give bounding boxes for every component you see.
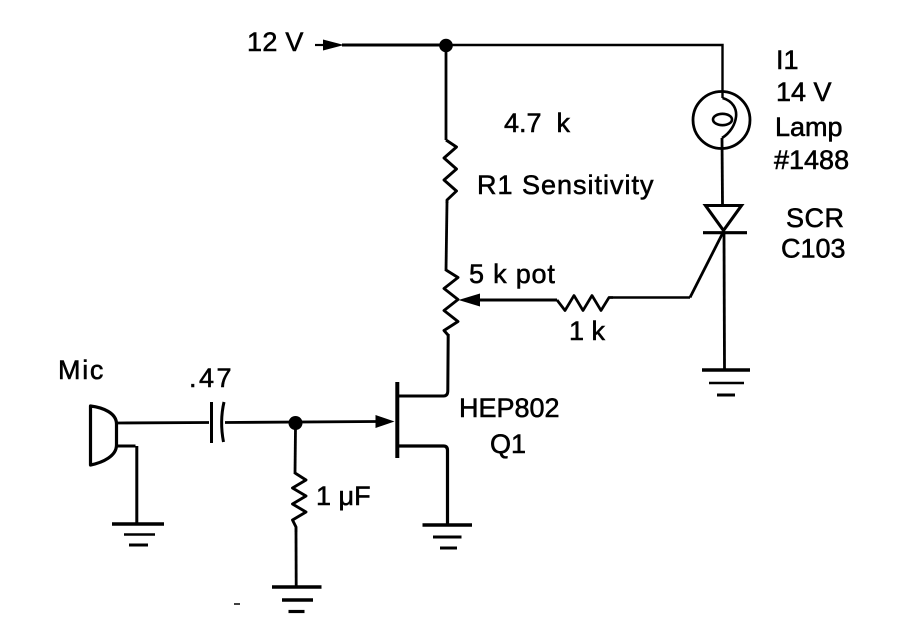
- svg-text:I1: I1: [776, 45, 799, 75]
- node junction at 1uF: [289, 416, 303, 430]
- svg-text:C103: C103: [781, 234, 846, 264]
- potentiometer 5k zigzag: [444, 270, 458, 335]
- svg-text:Q1: Q1: [490, 429, 526, 459]
- svg-text:1 k: 1 k: [569, 316, 606, 346]
- wire top rail left: [342, 44, 446, 47]
- ground 1uF: [272, 587, 322, 612]
- wire junction down to R1: [445, 49, 448, 140]
- wire SCR cathode down: [723, 233, 726, 369]
- capacitor 1uF squiggle: [293, 473, 307, 532]
- wire cap to junction to transistor: [225, 422, 377, 423]
- lamp I1: [693, 92, 750, 149]
- svg-text:#1488: #1488: [774, 145, 849, 175]
- wire lamp to SCR: [721, 138, 724, 205]
- svg-text:R1 Sensitivity: R1 Sensitivity: [477, 170, 655, 200]
- svg-text:14 V: 14 V: [776, 77, 832, 107]
- resistor 1k horizontal zigzag: [557, 296, 613, 311]
- svg-text:5 k pot: 5 k pot: [469, 259, 556, 289]
- wire top rail right to lamp: [446, 45, 723, 98]
- capacitor .47: [212, 402, 225, 443]
- wire R1 to pot: [446, 202, 447, 271]
- arrow into Q1 gate: [376, 415, 395, 428]
- resistor R1 4.7k zigzag: [444, 140, 457, 203]
- ground mic: [112, 524, 164, 545]
- transistor Q1: [397, 334, 448, 524]
- svg-text:4.7 k: 4.7 k: [504, 108, 571, 138]
- wire 1uF to ground: [295, 532, 298, 586]
- wire junction down to 1uF: [294, 428, 297, 474]
- power arrow 12V: [315, 40, 344, 51]
- svg-text:Mic: Mic: [58, 355, 105, 385]
- speck artifact: [234, 603, 240, 605]
- ground SCR: [702, 370, 750, 395]
- svg-text:1 μF: 1 μF: [316, 481, 371, 511]
- node junction 12V rail: [439, 39, 453, 53]
- SCR C103: [703, 206, 747, 233]
- microphone: [91, 406, 117, 465]
- wire mic lower terminal: [117, 446, 137, 523]
- svg-text:Lamp: Lamp: [775, 112, 843, 142]
- svg-text:HEP802: HEP802: [459, 393, 560, 423]
- wire SCR gate diagonal: [690, 234, 723, 298]
- wire mic output: [117, 421, 209, 424]
- ground transistor: [423, 525, 473, 548]
- wiper arrow of pot: [459, 294, 558, 307]
- wire 1k to SCR gate corner: [613, 296, 690, 298]
- svg-text:SCR: SCR: [786, 203, 845, 233]
- svg-text:12 V: 12 V: [247, 27, 304, 57]
- svg-text:.47: .47: [189, 363, 234, 393]
